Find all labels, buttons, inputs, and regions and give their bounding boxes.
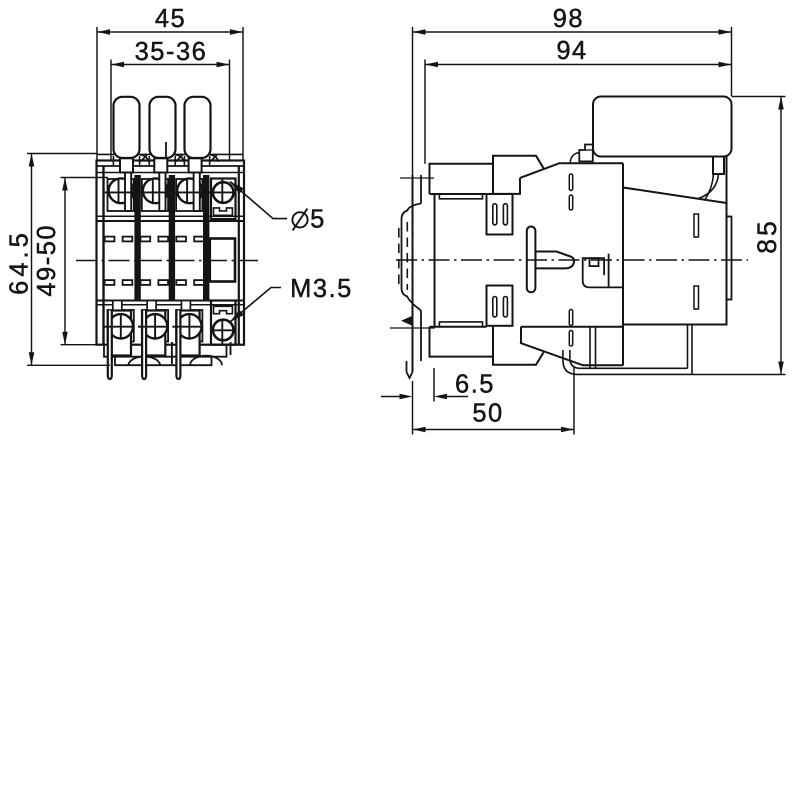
svg-text:98: 98: [553, 5, 584, 33]
svg-text:50: 50: [472, 400, 503, 428]
svg-text:64.5: 64.5: [5, 229, 33, 295]
svg-text:94: 94: [556, 37, 587, 65]
svg-text:5: 5: [310, 206, 326, 234]
svg-text:M3.5: M3.5: [290, 275, 353, 303]
svg-text:85: 85: [752, 218, 782, 253]
svg-text:35-36: 35-36: [135, 38, 208, 66]
svg-text:6.5: 6.5: [455, 371, 495, 399]
svg-text:45: 45: [155, 5, 186, 33]
svg-text:49-50: 49-50: [33, 224, 61, 297]
